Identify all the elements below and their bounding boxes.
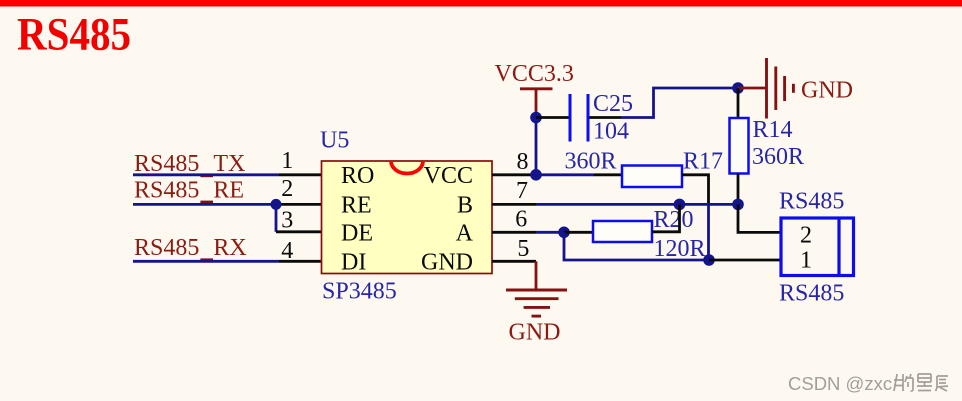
wire RS485_TX horizontal xyxy=(133,173,279,176)
svg-text:3: 3 xyxy=(281,208,293,234)
svg-text:RE: RE xyxy=(213,177,244,203)
svg-text:RS485: RS485 xyxy=(779,189,844,215)
junction pin8 node xyxy=(530,169,542,181)
pin 2 stub xyxy=(276,203,322,206)
pin 3 stub xyxy=(276,230,322,233)
pin 8 stub xyxy=(492,173,536,176)
junction B and R14 xyxy=(732,199,744,211)
wire pin5 to ground xyxy=(535,261,538,290)
wire R17 right xyxy=(682,175,709,205)
wire R14 bottom to B line xyxy=(737,174,740,205)
svg-text:RS485: RS485 xyxy=(134,235,199,261)
svg-text:360R: 360R xyxy=(752,144,804,170)
svg-text:2: 2 xyxy=(281,176,293,202)
resistor R17 body xyxy=(622,166,682,188)
svg-text:GND: GND xyxy=(801,78,853,104)
svg-text:RE: RE xyxy=(341,192,372,218)
junction A node xyxy=(558,227,570,239)
svg-text:GND: GND xyxy=(421,249,473,275)
IC U1 body SP3485 xyxy=(322,161,493,274)
svg-text:U5: U5 xyxy=(320,128,349,154)
junction A bottom xyxy=(703,254,715,266)
wire VCC vertical down to pin 8 xyxy=(535,118,538,175)
svg-text:RO: RO xyxy=(341,163,374,189)
svg-text:GND: GND xyxy=(509,320,561,346)
capacitor C25 plate right xyxy=(587,94,590,142)
junction B and R20 riser xyxy=(674,199,686,211)
wire junction to gnd symbol xyxy=(738,87,766,90)
watermark CSDN xyxy=(788,373,948,394)
wire RS485_RX horizontal xyxy=(133,260,279,263)
wire A net pin6 xyxy=(536,231,564,234)
pin 6 stub xyxy=(492,231,536,234)
IC notch arc xyxy=(391,161,423,174)
ground symbol top right (rotated) xyxy=(767,58,794,119)
svg-text:RS485: RS485 xyxy=(134,151,199,177)
svg-text:104: 104 xyxy=(593,119,629,145)
svg-text:B: B xyxy=(457,192,473,218)
pin 7 stub xyxy=(492,203,536,206)
svg-text:8: 8 xyxy=(517,149,529,175)
svg-text:DI: DI xyxy=(341,249,366,275)
wire A junction into R20 xyxy=(564,231,593,234)
wire A down to bottom run xyxy=(564,232,709,260)
svg-text:360R: 360R xyxy=(565,149,617,175)
svg-text:R17: R17 xyxy=(683,149,723,175)
connector J body xyxy=(781,218,854,276)
svg-text:VCC: VCC xyxy=(424,163,473,189)
wire B net to R14 node xyxy=(680,203,739,206)
resistor R14 body xyxy=(730,118,749,174)
pin 4 stub xyxy=(279,260,322,263)
svg-text:VCC3.3: VCC3.3 xyxy=(495,61,574,87)
wire gnd node down to R14 xyxy=(737,88,740,118)
wire capacitor right black xyxy=(590,116,622,119)
wire B down to connector pin 2 xyxy=(738,204,781,232)
connector inner divider xyxy=(837,218,840,276)
svg-text:TX: TX xyxy=(213,151,245,177)
svg-text:A: A xyxy=(456,220,474,246)
pin 1 stub xyxy=(279,173,322,176)
svg-text:1: 1 xyxy=(800,248,812,274)
svg-text:1: 1 xyxy=(281,148,293,174)
svg-text:2: 2 xyxy=(800,223,812,249)
capacitor C25 plate left xyxy=(569,94,572,142)
svg-text:R14: R14 xyxy=(753,117,793,143)
wire vertical RE to pin3 xyxy=(275,204,278,231)
resistor R20 body xyxy=(593,221,652,242)
svg-text:CSDN @zxc: CSDN @zxc xyxy=(788,373,892,394)
wire black into R17 xyxy=(594,173,622,176)
wire R17 drop to A line xyxy=(707,204,710,260)
VCC3.3 power bar symbol xyxy=(520,87,553,90)
top red banner bar xyxy=(0,0,962,7)
wire B net pin7 xyxy=(536,203,680,206)
wire VCC to capacitor xyxy=(536,116,569,119)
svg-text:SP3485: SP3485 xyxy=(322,279,397,305)
junction on RE wire xyxy=(271,199,282,210)
wire capacitor to gnd riser xyxy=(621,88,738,118)
wire A to connector pin 1 xyxy=(709,259,781,262)
svg-text:DE: DE xyxy=(341,220,373,246)
svg-text:7: 7 xyxy=(516,178,528,204)
junction top gnd node xyxy=(732,82,744,94)
svg-text:5: 5 xyxy=(517,236,529,262)
junction VCC node xyxy=(530,112,542,124)
svg-text:6: 6 xyxy=(515,207,527,233)
ground symbol bottom xyxy=(506,290,567,316)
svg-text:120R: 120R xyxy=(654,236,706,262)
svg-text:RS485: RS485 xyxy=(17,9,131,61)
svg-text:RS485: RS485 xyxy=(779,281,844,307)
svg-text:RX: RX xyxy=(213,235,246,261)
wire R20 right riser to B xyxy=(652,204,680,231)
wire RS485_RE horizontal xyxy=(133,203,276,206)
svg-text:4: 4 xyxy=(281,238,293,264)
pin 5 stub xyxy=(492,260,536,263)
wire pin8 junction to R17 xyxy=(536,173,594,176)
svg-text:R20: R20 xyxy=(654,207,694,233)
svg-text:C25: C25 xyxy=(593,91,633,117)
VCC stem xyxy=(535,89,538,118)
svg-text:RS485: RS485 xyxy=(134,177,199,203)
